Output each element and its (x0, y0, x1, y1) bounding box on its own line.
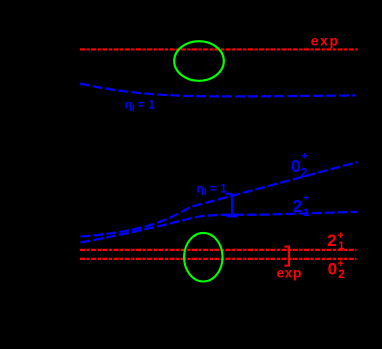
svg-text:2: 2 (293, 196, 303, 216)
svg-text:ηl = 1: ηl = 1 (197, 182, 228, 198)
svg-text:1: 1 (303, 207, 309, 219)
svg-text:ηl = 1: ηl = 1 (125, 98, 156, 114)
svg-text:0: 0 (328, 260, 337, 279)
label 0+2 (blue, above rising line) (291, 151, 308, 180)
blue dashed 2+1 theory curve (bottom panel, flattening) (81, 212, 358, 243)
red dotted experimental 0+2 level (bottom panel) (80, 258, 357, 260)
blue dashed theory curve eta_l=1 (top panel) (80, 84, 356, 97)
svg-text:exp: exp (277, 264, 302, 280)
svg-text:+: + (303, 192, 309, 204)
svg-text:2: 2 (338, 267, 345, 281)
svg-text:+: + (302, 151, 308, 163)
green highlight circle (bottom panel) (184, 233, 222, 282)
label 2+1 (red, above upper red line) (327, 230, 344, 252)
svg-text:2: 2 (327, 231, 336, 250)
red experimental error bar (285, 246, 291, 267)
svg-text:2: 2 (300, 166, 307, 180)
blue error bar between theory lines (226, 194, 237, 217)
blue dashed 0+2 theory line (bottom panel, rising) (81, 162, 358, 237)
red dotted experimental level line (top panel) (80, 48, 358, 50)
red dotted experimental 2+1 level (bottom panel) (80, 249, 357, 251)
label 0+2 (red, below lower red line) (328, 258, 346, 281)
green highlight circle (top panel) (174, 41, 224, 81)
svg-text:1: 1 (338, 240, 344, 252)
label 2+1 (blue, above flat line) (293, 192, 310, 219)
svg-text:exp: exp (311, 32, 340, 48)
